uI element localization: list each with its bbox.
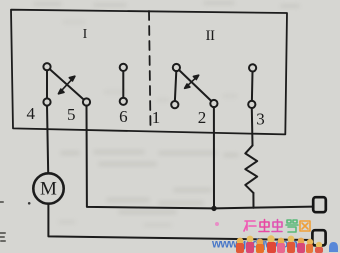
svg-text:II: II <box>206 28 215 44</box>
wire motor to bottom terminal T2 <box>48 204 312 240</box>
svg-text:6: 6 <box>119 107 128 126</box>
contact 2 <box>210 100 217 107</box>
contact 3 jumper wire <box>251 72 254 101</box>
speck near motor <box>28 202 31 205</box>
svg-text:I: I <box>83 27 88 42</box>
wire contact 4 to motor <box>47 106 48 174</box>
wire contact 2 down to junction <box>213 107 215 208</box>
switch SII pole contact <box>173 64 180 71</box>
contact 3 lower terminal <box>248 101 255 108</box>
resistor lower lead <box>252 193 254 208</box>
terminal T1 (upper square) <box>313 197 326 212</box>
switch unit box <box>11 10 287 135</box>
wire pole to contact 4 <box>46 70 48 98</box>
svg-text:4: 4 <box>27 104 36 123</box>
svg-text:2: 2 <box>198 108 207 127</box>
switch SI wiper arm <box>50 69 84 100</box>
resistor R <box>245 145 257 193</box>
wire contact 3 to resistor <box>251 108 254 145</box>
wire pole to contact 1 <box>175 71 176 101</box>
dashed section divider <box>149 11 151 130</box>
contact 1 <box>171 101 178 108</box>
svg-text:M: M <box>40 179 57 200</box>
wire contact 5 down and across to terminal T1 <box>87 106 314 209</box>
svg-text:5: 5 <box>67 105 76 124</box>
terminal T2 (lower square) <box>312 230 325 245</box>
watermark site name 广电电器网 (drawn glyph blocks) <box>244 220 310 233</box>
junction node <box>211 206 216 211</box>
pink speck <box>215 222 219 226</box>
switch SII wiper arm <box>179 70 211 101</box>
contact 3 upper terminal <box>249 64 256 71</box>
switch SII motion arrow <box>185 75 199 88</box>
motor M <box>33 173 63 203</box>
watermark mascot figures row <box>236 235 338 253</box>
contact 6 lower terminal <box>120 98 127 105</box>
contact 5 <box>83 98 90 105</box>
faint bleed-through marks <box>35 3 298 6</box>
switch SI motion arrow <box>58 76 75 94</box>
svg-text:1: 1 <box>152 108 161 127</box>
edge artifact marks <box>0 202 5 241</box>
switch SI pole contact <box>43 63 50 70</box>
svg-text:3: 3 <box>256 110 265 129</box>
contact 6 jumper wire <box>122 71 124 98</box>
contact 6 upper terminal <box>120 64 127 71</box>
contact 4 <box>43 98 50 105</box>
